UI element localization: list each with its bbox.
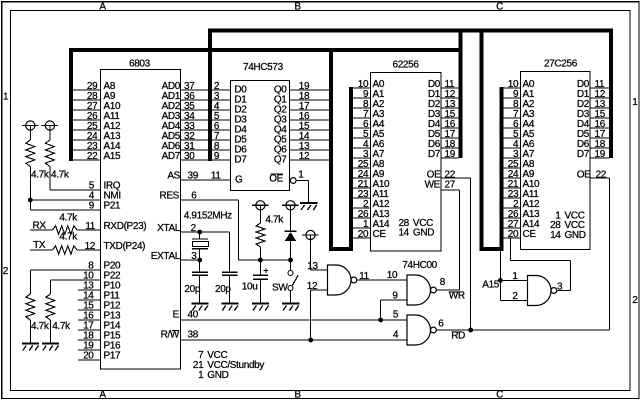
wire 62256 OE to RD line: [441, 178, 471, 330]
svg-text:CE: CE: [373, 229, 387, 240]
nand gate U5A: [328, 265, 357, 295]
svg-text:P21: P21: [104, 201, 122, 212]
27C256 address/CE pin wires: [504, 88, 521, 238]
node reset/switch junction: [288, 258, 293, 263]
R1 value label: [31, 169, 50, 180]
net label RD: [451, 330, 465, 341]
svg-text:4.7k: 4.7k: [31, 169, 50, 180]
6803 pin EXTAL label: [151, 251, 198, 262]
svg-text:20p: 20p: [215, 284, 231, 295]
wire R3 to RXD: [77, 229, 100, 231]
svg-text:4.7k: 4.7k: [52, 321, 71, 332]
svg-text:AS: AS: [167, 171, 180, 182]
R3 value label: [59, 213, 78, 224]
wire A15 from bus to gate U5D: [500, 251, 527, 301]
svg-text:E: E: [173, 309, 180, 320]
U5D pin 2 number: [512, 291, 518, 302]
svg-text:P17: P17: [104, 351, 122, 362]
bus: drop to 27C256 address bus: [480, 29, 484, 252]
svg-text:1: 1: [298, 169, 304, 180]
svg-text:4.7k: 4.7k: [265, 214, 284, 225]
svg-text:6: 6: [438, 319, 444, 330]
wire EXTAL: [181, 259, 200, 261]
wire gate U5A input 12 from R/W: [311, 290, 328, 340]
svg-text:1: 1: [632, 97, 638, 108]
wire IRQ pin: [50, 189, 100, 191]
svg-text:12: 12: [299, 151, 310, 162]
6803 pin 5 IRQ label: [89, 181, 121, 192]
R5 value label: [31, 321, 50, 332]
6803 pin 11 RXD(P23) label: [85, 221, 146, 232]
node NMI junction: [28, 198, 33, 203]
wire C3 to ground: [259, 279, 261, 303]
wire reset node down to SW: [290, 260, 292, 271]
U5C pin 4 number: [393, 330, 399, 341]
6803 power annotation: [193, 350, 265, 381]
svg-text:2: 2: [3, 266, 9, 277]
svg-text:XTAL: XTAL: [157, 223, 181, 234]
svg-text:30: 30: [184, 151, 195, 162]
6803 address pins A8-A15 wires: [73, 90, 100, 160]
svg-text:14: 14: [398, 227, 409, 238]
62256 power annotation: [398, 218, 434, 239]
svg-text:1: 1: [3, 91, 9, 102]
wire C2 to ground: [229, 275, 231, 303]
svg-text:C: C: [496, 1, 503, 12]
svg-text:4.7k: 4.7k: [51, 169, 70, 180]
svg-text:A: A: [99, 389, 106, 400]
wire E to gate U5C input 5: [181, 319, 408, 321]
62256 left pin numbers: [358, 79, 369, 240]
node R/W branch junction: [308, 338, 313, 343]
svg-text:13: 13: [307, 261, 318, 272]
wire RX input: [30, 229, 53, 231]
svg-text:6803: 6803: [129, 59, 151, 70]
wire 27C256 CE to gate U5D output: [511, 238, 571, 291]
wire R5 to ground: [29, 320, 31, 344]
wire D1 to reset node: [290, 241, 292, 260]
svg-text:9: 9: [214, 151, 220, 162]
wire P20 down to R5: [29, 270, 31, 294]
wire TX input: [30, 249, 53, 251]
wire XTAL down to C2: [229, 232, 231, 272]
svg-text:AD7: AD7: [162, 151, 181, 162]
wire P22 pin: [50, 279, 100, 281]
6803 pin labels AD0-AD7: [162, 81, 181, 162]
74HC573 part label: [243, 62, 284, 73]
node E branch junction: [378, 318, 383, 323]
SW label: [272, 282, 288, 293]
ground at R6: [42, 344, 59, 351]
svg-text:4.9152MHz: 4.9152MHz: [184, 210, 232, 221]
power symbol VCC (reset pull-up): [252, 201, 269, 210]
62256 pin labels A0-A14 CE: [373, 79, 391, 240]
svg-text:10: 10: [387, 270, 398, 281]
svg-text:D7: D7: [577, 149, 590, 160]
resistor R7 4.7k (reset pull-up): [256, 223, 265, 247]
wire VCC to gate U5A input 13: [311, 235, 328, 270]
U5D pin 3 number: [557, 281, 563, 292]
U5A pin 13 number: [307, 261, 318, 272]
wire U5B output 8 WR: [436, 289, 459, 291]
svg-text:OE: OE: [269, 173, 283, 184]
svg-text:B: B: [294, 1, 301, 12]
74HC573 pin numbers 19-12: [299, 81, 310, 162]
wire E branch up to gate U5B input 9: [380, 300, 382, 320]
svg-text:OE: OE: [577, 169, 591, 180]
ground at C1: [191, 304, 208, 311]
wire R6 to ground: [49, 320, 51, 344]
resistor R4 4.7k (TX series): [53, 246, 78, 254]
svg-text:A15: A15: [482, 280, 500, 291]
svg-text:40: 40: [188, 309, 199, 320]
svg-text:2: 2: [512, 291, 518, 302]
IC U3 62256 body: [371, 73, 442, 252]
wire XTAL node down to crystal: [199, 232, 201, 239]
svg-text:3: 3: [191, 251, 197, 262]
crystal X1 4.9152MHz: [192, 239, 209, 249]
62256 pin OE label: [427, 169, 456, 180]
svg-text:4.7k: 4.7k: [59, 213, 78, 224]
U5A pin 12 number: [307, 281, 318, 292]
R2 value label: [51, 169, 70, 180]
node XTAL junction: [197, 230, 202, 235]
74HC573 OE bubble: [290, 178, 296, 184]
27C256 power annotation: [550, 210, 586, 241]
IC U2 74HC573 body: [231, 81, 290, 191]
svg-text:5: 5: [393, 310, 399, 321]
27C256 right pin numbers: [595, 79, 606, 160]
switch SW: [288, 271, 298, 291]
27C256 part label: [544, 59, 578, 70]
6803 pin numbers 37-30: [184, 81, 195, 162]
resistor R3 4.7k (RX series): [53, 226, 78, 234]
svg-text:C: C: [496, 389, 503, 400]
74HC573 Q0-Q7 output wires: [290, 90, 332, 160]
wire XTAL: [181, 231, 230, 233]
27C256 pin OE label: [577, 169, 607, 180]
svg-text:19: 19: [445, 149, 456, 160]
6803 pin numbers 29-22: [87, 81, 98, 162]
svg-text:4.7k: 4.7k: [59, 232, 78, 243]
wire VCC to D1: [290, 205, 292, 231]
svg-text:62256: 62256: [393, 59, 420, 70]
svg-text:B: B: [294, 389, 301, 400]
resistor R5 4.7k (P20 pull-down): [26, 294, 35, 320]
62256 part label: [393, 59, 420, 70]
wire VCC to R2: [49, 126, 51, 141]
wire reset node down to C3: [259, 260, 261, 275]
svg-text:74HC573: 74HC573: [243, 62, 284, 73]
svg-text:G: G: [235, 174, 243, 185]
bus: 27C256 data ladder vertical: [609, 29, 613, 159]
bus: top horizontal data/address bus: [208, 29, 613, 33]
wire C1 to ground: [199, 275, 201, 303]
node EXTAL junction: [197, 258, 202, 263]
svg-text:27C256: 27C256: [544, 59, 578, 70]
svg-text:20: 20: [358, 229, 369, 240]
svg-text:A15: A15: [104, 151, 122, 162]
resistor R1 4.7k (NMI/P21 pull-up): [26, 140, 35, 167]
svg-text:WE: WE: [425, 180, 441, 191]
svg-text:GND: GND: [565, 230, 586, 241]
svg-text:1: 1: [512, 271, 518, 282]
svg-text:RES: RES: [159, 191, 179, 202]
6803 multiplexed bus pins AD0-AD7 wires: [181, 90, 209, 160]
ground at R5: [22, 344, 39, 351]
bus: 74HC573 Q output bus down to 62256: [329, 48, 333, 251]
svg-text:19: 19: [595, 149, 606, 160]
6803 pin AS label: [167, 171, 221, 182]
svg-text:GND: GND: [413, 227, 434, 238]
svg-text:R/W: R/W: [161, 329, 180, 340]
svg-text:D7: D7: [428, 149, 441, 160]
C3 value label: [242, 281, 258, 292]
ground at 74HC573 OE: [300, 203, 317, 210]
wire 62256 WE to WR line: [441, 190, 460, 290]
wire RES vertical down to reset node: [237, 200, 239, 260]
R4 value label: [59, 232, 78, 243]
nand gate U5C: [407, 315, 436, 345]
svg-text:D7: D7: [234, 154, 247, 165]
net label A15: [482, 280, 500, 291]
svg-text:SW: SW: [272, 282, 288, 293]
svg-text:74HC00: 74HC00: [402, 260, 437, 271]
62256 address/CE pin wires: [353, 88, 370, 238]
svg-text:10u: 10u: [242, 281, 258, 292]
bus: 27C256 address ladder vertical: [500, 87, 504, 251]
62256 pin WE label: [425, 180, 456, 191]
capacitor C3 10u electrolytic: [253, 268, 268, 279]
bus: 62256 address ladder vertical: [349, 87, 353, 251]
svg-text:GND: GND: [207, 370, 228, 381]
wire R2 to IRQ: [49, 167, 51, 191]
bus: horizontal bus y=50: [69, 48, 463, 52]
svg-text:8: 8: [440, 277, 446, 288]
wire OE to ground: [296, 181, 308, 204]
svg-text:12: 12: [307, 281, 318, 292]
74HC00 part label: [402, 260, 437, 271]
6803 part label: [129, 59, 151, 70]
wire VCC to R1: [29, 126, 31, 141]
62256 right pin numbers: [445, 79, 456, 160]
U5B pin 10 number: [387, 270, 398, 281]
resistor R2 4.7k (IRQ pull-up): [45, 140, 54, 167]
74HC573 pin numbers 2-9: [214, 81, 220, 162]
node RX label: [33, 221, 47, 232]
bus: AD0-AD7 vertical bus at x=210: [208, 29, 212, 162]
IC U4 27C256 body: [521, 72, 591, 250]
bus: data bus drop to 62256 D pins: [459, 29, 463, 159]
svg-text:4: 4: [393, 330, 399, 341]
74HC573 D0-D7 input wires: [212, 90, 230, 160]
6803 pin XTAL label: [157, 223, 196, 234]
svg-text:3: 3: [557, 281, 563, 292]
6803 pin 12 TXD(P24) label: [85, 241, 146, 252]
6803 port pin labels P20,P22,P10-P17: [83, 261, 121, 362]
wire R4 to TXD: [77, 249, 100, 251]
svg-text:CE: CE: [523, 229, 537, 240]
6803 pin labels A8-A15: [104, 81, 122, 162]
wire VCC to R7: [259, 205, 261, 223]
svg-text:2: 2: [632, 295, 638, 306]
svg-text:22: 22: [87, 151, 98, 162]
svg-text:WR: WR: [449, 290, 465, 301]
wire P21 pin: [30, 209, 100, 211]
ground at SW: [282, 304, 299, 311]
svg-text:11: 11: [359, 271, 369, 282]
svg-text:20p: 20p: [184, 284, 200, 295]
node RD / 62256 OE junction: [468, 328, 473, 333]
capacitor C2 20p: [222, 272, 238, 275]
74HC573 pin labels D0-D7: [234, 84, 247, 165]
wire reset node horizontal: [238, 259, 291, 261]
bus: U-turn bottom below 27C256: [480, 247, 504, 251]
nand gate U5D: [528, 276, 557, 306]
62256 data pin wires D0-D7: [441, 88, 459, 158]
U5A pin 11 number: [359, 271, 369, 282]
R6 value label: [52, 321, 71, 332]
C2 value label: [215, 284, 231, 295]
U5C pin 5 number: [393, 310, 399, 321]
svg-text:TXD(P24): TXD(P24): [104, 241, 146, 252]
svg-text:TX: TX: [33, 240, 46, 251]
svg-text:A: A: [99, 1, 106, 12]
U5D pin 1 number: [512, 271, 518, 282]
27C256 pin labels A0-A14 CE: [523, 79, 541, 240]
wire AS to 74HC573 G: [181, 179, 231, 181]
wire R1 to NMI and P21: [29, 167, 31, 211]
node TX label: [33, 240, 46, 251]
wire U5A output 11 to U5B input 10: [356, 279, 407, 281]
6803 port pins P10-P17 stub wires: [78, 290, 100, 360]
wire U5C output 6 RD line: [436, 329, 609, 331]
power symbol VCC (IRQ pull-up): [42, 121, 59, 130]
diode D1: [285, 231, 297, 241]
6803 pin 9 P21 label: [89, 201, 121, 212]
svg-text:Q7: Q7: [274, 154, 287, 165]
svg-text:14: 14: [550, 230, 561, 241]
wire NMI pin: [30, 199, 100, 201]
74HC573 pin OE label: [269, 169, 304, 184]
6803 pin RES label: [159, 191, 197, 202]
6803 pin E label: [173, 309, 199, 320]
crystal X1 value label: [184, 210, 232, 221]
bus: U-turn bottom below 62256: [329, 247, 353, 251]
svg-text:4.7k: 4.7k: [31, 321, 50, 332]
27C256 data pin wires D0-D7: [590, 88, 609, 158]
27C256 pin labels D0-D7: [577, 79, 590, 160]
net label WR: [449, 290, 465, 301]
svg-text:RXD(P23): RXD(P23): [104, 221, 147, 232]
svg-text:RD: RD: [451, 330, 465, 341]
power symbol VCC (diode): [282, 201, 299, 210]
wire P22 down to R6: [49, 280, 51, 294]
wire U5B input 9 from E: [381, 299, 407, 301]
wire 27C256 OE down to RD line: [590, 178, 610, 330]
ground at C3: [252, 304, 269, 311]
ground at C2: [221, 304, 238, 311]
IC U1 6803 body: [101, 70, 181, 370]
wire P20 pin: [30, 269, 100, 271]
wire R7 to reset node: [259, 247, 261, 260]
wire crystal to EXTAL node: [199, 249, 201, 260]
svg-text:27: 27: [445, 180, 456, 191]
nand gate U5B: [407, 275, 436, 305]
U5B pin 8 number: [440, 277, 446, 288]
node reset/R7 junction: [258, 258, 263, 263]
wire R/W to gate U5C input 4: [181, 339, 408, 341]
resistor R6 4.7k (P22 pull-down): [46, 294, 55, 320]
svg-text:1: 1: [198, 370, 204, 381]
bus: A8-A15 vertical bus at left: [69, 48, 73, 161]
wire RES horizontal: [181, 199, 239, 201]
R7 value label: [265, 214, 284, 225]
C1 value label: [184, 284, 200, 295]
74HC573 pin G label: [235, 174, 243, 185]
power symbol VCC (NMI/P21 pull-up): [22, 121, 39, 130]
27C256 left pin numbers: [508, 79, 519, 240]
U5B pin 9 number: [392, 290, 398, 301]
62256 pin labels D0-D7: [428, 79, 441, 160]
U5C pin 6 number: [438, 319, 444, 330]
6803 pin R/W label: [161, 329, 199, 340]
wire EXTAL node down to C1: [199, 260, 201, 272]
power symbol VCC (gate U5A pin 13): [302, 230, 319, 239]
svg-text:EXTAL: EXTAL: [151, 251, 181, 262]
svg-text:22: 22: [596, 169, 607, 180]
74HC573 pin labels Q0-Q7: [274, 84, 287, 165]
wire SW to ground: [290, 291, 292, 304]
capacitor C1 20p: [192, 272, 208, 275]
svg-text:38: 38: [188, 329, 199, 340]
node A15 junction: [498, 278, 503, 283]
6803 pin 4 NMI label: [89, 191, 121, 202]
